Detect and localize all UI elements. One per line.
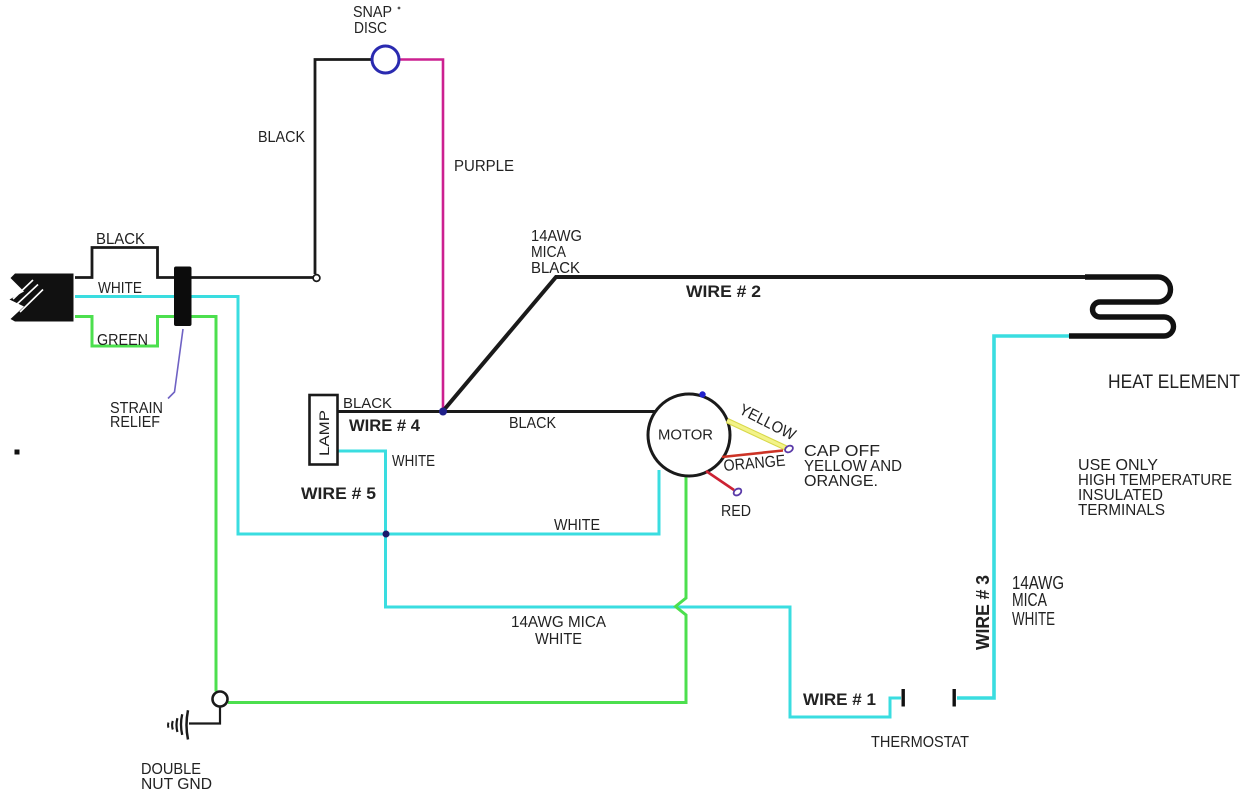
svg-text:SNAP: SNAP (353, 4, 392, 21)
svg-text:WIRE # 2: WIRE # 2 (686, 282, 761, 301)
svg-text:WIRE # 5: WIRE # 5 (301, 484, 376, 503)
svg-text:BLACK: BLACK (509, 415, 556, 432)
svg-text:NUT GND: NUT GND (141, 776, 212, 793)
svg-text:WHITE: WHITE (554, 517, 600, 534)
svg-text:MICA: MICA (1012, 590, 1047, 610)
svg-text:GREEN: GREEN (97, 332, 148, 349)
svg-text:MICA: MICA (531, 244, 566, 261)
svg-text:14AWG MICA: 14AWG MICA (511, 614, 606, 631)
svg-text:WIRE # 1: WIRE # 1 (803, 690, 876, 709)
svg-text:BLACK: BLACK (343, 395, 392, 412)
svg-text:BLACK: BLACK (258, 129, 305, 146)
svg-text:WHITE: WHITE (535, 631, 582, 648)
svg-text:WIRE # 4: WIRE # 4 (349, 416, 421, 435)
svg-text:THERMOSTAT: THERMOSTAT (871, 734, 969, 751)
svg-text:TERMINALS: TERMINALS (1078, 502, 1165, 519)
svg-text:RED: RED (721, 503, 751, 520)
svg-text:MOTOR: MOTOR (658, 427, 713, 444)
svg-text:WHITE: WHITE (392, 453, 435, 470)
svg-text:PURPLE: PURPLE (454, 158, 514, 175)
svg-text:WIRE # 3: WIRE # 3 (973, 575, 993, 650)
svg-text:ORANGE.: ORANGE. (804, 473, 878, 490)
svg-text:BLACK: BLACK (96, 231, 145, 248)
svg-text:14AWG: 14AWG (531, 228, 582, 245)
svg-text:HEAT ELEMENT: HEAT ELEMENT (1108, 372, 1240, 393)
svg-text:DISC: DISC (354, 20, 387, 37)
svg-text:WHITE: WHITE (98, 280, 142, 297)
svg-text:BLACK: BLACK (531, 260, 580, 277)
svg-text:RELIEF: RELIEF (110, 414, 160, 431)
svg-text:WHITE: WHITE (1012, 609, 1055, 629)
svg-text:LAMP: LAMP (317, 410, 332, 456)
